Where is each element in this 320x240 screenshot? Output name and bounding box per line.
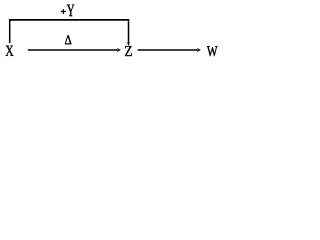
node W <box>207 46 218 56</box>
wire: arrow Z to W <box>138 49 198 51</box>
arrowhead into W (right) <box>197 48 201 53</box>
arrowhead into Z (down) <box>126 42 130 46</box>
node X <box>6 46 14 56</box>
wire: feedback path, top horizontal run <box>9 19 129 21</box>
delta symbol above arrow <box>65 35 71 44</box>
label +Y : plus sign <box>61 9 66 14</box>
label +Y : letter Y <box>67 5 75 17</box>
arrowhead into Z (right) <box>117 48 121 53</box>
node Z <box>125 46 132 56</box>
wire: feedback path, left leg rising from X <box>9 19 11 43</box>
wire: arrow X to Z <box>28 49 118 51</box>
wire: feedback path, right leg dropping to Z <box>128 19 130 43</box>
